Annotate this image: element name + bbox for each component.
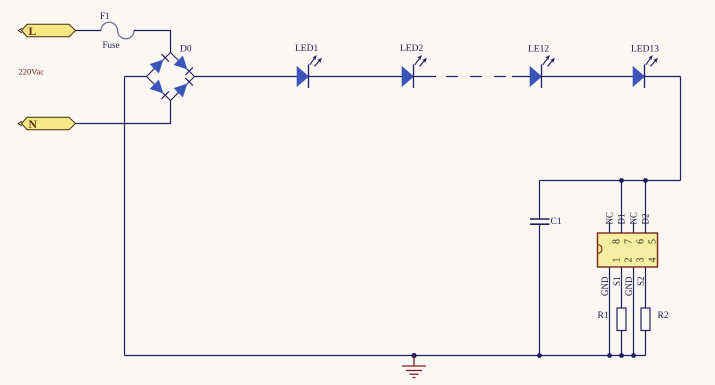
svg-text:6: 6 [636,239,647,244]
svg-text:220Vac: 220Vac [19,67,45,77]
wire bridge left to left rail [125,76,147,78]
dashed wire segment [446,76,506,78]
bridge diode top-to-right [174,56,193,75]
bridge rectifier D0 diamond outline [147,53,195,101]
pin 3 wire GND down [633,267,635,356]
ground symbol [402,356,426,378]
svg-text:3: 3 [636,258,647,263]
svg-text:S2: S2 [636,277,646,287]
pin 2 wire to R1 [621,267,623,308]
bottom rail wire [125,355,646,357]
svg-text:GND: GND [624,276,634,296]
svg-text:D0: D0 [180,45,192,55]
svg-text:4: 4 [648,258,659,263]
wire L to fuse [76,30,102,32]
LED LED2 [402,55,427,88]
bridge diode left-to-bottom [150,80,169,99]
wire LED1 to LED2 [309,76,403,78]
svg-text:LE12: LE12 [528,45,549,55]
pin 1 wire GND down [609,267,611,356]
wire top of IC (node D1/D2) [540,180,681,182]
bridge diode bottom-to-right [174,78,193,97]
junction dot D1 [619,178,624,183]
IC notch [598,245,603,254]
wire fuse to bridge top [134,31,171,53]
wire N to bridge bottom [76,101,171,124]
wire LE12 to LED13 [542,76,634,78]
svg-text:S1: S1 [612,277,622,287]
svg-text:R1: R1 [598,311,609,321]
junction dot ground [411,353,416,358]
pin 8 stub (NC) [609,222,611,233]
fuse F1 [101,22,134,38]
svg-text:D1: D1 [617,214,627,225]
wire C1 lower [539,224,541,355]
svg-text:GND: GND [600,276,610,296]
svg-text:LED13: LED13 [631,45,659,55]
wire C1 upper [539,181,541,220]
junction dot GND pin1 [607,353,612,358]
junction dot R1 [619,353,624,358]
svg-text:7: 7 [624,239,635,244]
svg-text:L: L [29,26,37,38]
svg-text:NC: NC [605,212,615,225]
wire LED2 right [414,76,437,78]
IC U1 body [598,233,658,267]
svg-text:F1: F1 [100,11,110,21]
junction dot GND pin3 [631,353,636,358]
port N [18,117,75,131]
pin 6 stub (NC) [633,222,635,233]
pin 5 wire (D2) [645,181,647,234]
svg-text:LED2: LED2 [400,44,423,54]
right rail wire down [680,77,682,181]
wire LED13 to right rail [645,76,681,78]
svg-text:1: 1 [612,258,623,263]
junction dot C1 [537,353,542,358]
port L [18,24,75,38]
svg-text:8: 8 [612,239,623,244]
wire R2 to rail [645,331,647,356]
svg-text:D2: D2 [641,214,651,225]
left rail wire down [124,77,126,356]
junction dot D2 [643,178,648,183]
svg-text:Fuse: Fuse [103,40,120,50]
svg-text:N: N [29,119,38,131]
capacitor C1 [530,219,550,224]
svg-text:2: 2 [624,258,635,263]
svg-text:NC: NC [629,212,639,225]
LED LED13 [633,55,658,88]
svg-text:R2: R2 [658,311,669,321]
svg-text:5: 5 [648,239,659,244]
wire bridge right to LED1 [195,76,298,78]
bridge diode left-to-top [150,54,169,73]
wire to LE12 [512,76,530,78]
svg-text:C1: C1 [551,217,562,227]
LED LED1 [297,55,322,88]
svg-text:LED1: LED1 [295,44,318,54]
pin 4 wire to R2 [645,267,647,308]
wire R1 to rail [621,331,623,356]
LED LE12 [530,55,555,88]
resistor R1 [617,308,626,331]
pin 7 wire (D1) [621,181,623,234]
resistor R2 [641,308,650,331]
